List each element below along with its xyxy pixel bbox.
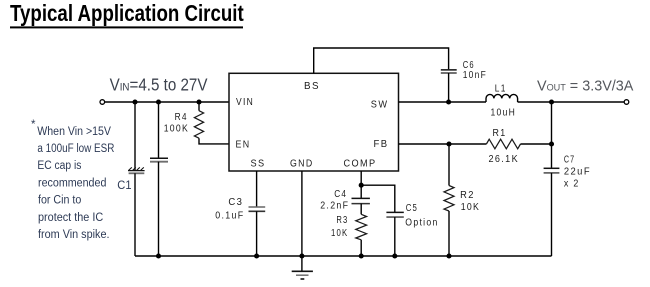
node junction C6/SW [446,99,451,104]
svg-text:C3: C3 [228,197,243,208]
svg-text:from Vin spike.: from Vin spike. [38,229,110,241]
capacitor C3 [249,207,266,211]
wire SS to C3 [256,171,258,207]
svg-text:SW: SW [371,100,389,111]
node junction COMP [359,183,364,188]
resistor R4 [194,111,203,139]
wire R1 to C7 node [521,143,552,145]
wire C4 to R3 [360,204,362,215]
svg-text:BS: BS [304,81,320,92]
wire ground rail [135,255,552,257]
svg-text:recommended: recommended [38,177,106,189]
svg-text:SS: SS [251,159,266,170]
resistor R3 [356,214,367,240]
capacitor C4 [352,198,370,203]
title underline [10,26,243,28]
svg-text:protect the IC: protect the IC [38,212,103,224]
svg-text:GND: GND [290,159,314,170]
wire R4 to EN [199,138,229,144]
capacitor C5 [386,212,403,217]
svg-text:x 2: x 2 [564,178,580,189]
net label VOUT=3.3V/3A [537,78,634,94]
node junction C1 top [132,99,137,104]
inductor L1 [486,94,518,102]
svg-text:C1: C1 [117,178,131,192]
svg-text:*: * [31,119,36,131]
capacitor C1 [128,167,145,173]
net label VIN=4.5 to 27V [110,76,208,95]
svg-text:2.2nF: 2.2nF [320,201,349,212]
wire C5 to rail [394,217,396,256]
wire Cin branch upper [158,102,160,158]
wire Cin branch lower [158,162,160,256]
node junction Cin/rail [156,253,161,258]
wire C1 branch upper [134,102,136,170]
wire C7 to rail [551,173,553,256]
wire R4 top stub [198,102,200,111]
svg-text:When Vin >15V: When Vin >15V [37,126,111,138]
input terminal [100,100,105,105]
node junction SS/rail [254,253,259,258]
capacitor Cin [150,158,168,162]
svg-text:R4: R4 [175,112,188,123]
svg-text:0.1uF: 0.1uF [215,210,244,221]
node junction Cin top [156,99,161,104]
wire C1 branch lower [134,173,136,256]
svg-text:R3: R3 [336,215,348,226]
wire R2 to rail [448,211,450,256]
node junction R3/rail [359,253,364,258]
wire L1 to output [518,101,625,103]
svg-text:FB: FB [374,139,389,150]
svg-text:10K: 10K [461,202,481,213]
wire COMP pin down [360,171,362,198]
svg-text:R1: R1 [493,128,507,139]
node junction FB/C7 [549,141,554,146]
node junction R4 top [196,99,201,104]
IC U1 (buck converter) [229,73,399,171]
svg-text:R2: R2 [460,190,475,201]
node junction R2/rail [446,253,451,258]
node junction VOUT [549,99,554,104]
svg-text:for Cin to: for Cin to [38,195,81,207]
svg-text:Typical Application Circuit: Typical Application Circuit [10,1,244,26]
svg-text:C7: C7 [564,155,575,166]
capacitor C7 [544,168,560,173]
node junction GND/rail [299,253,304,258]
wire COMP node to C5 [361,185,395,212]
wire GND pin to rail [301,171,303,256]
svg-text:L1: L1 [495,83,507,94]
svg-text:26.1K: 26.1K [489,154,520,165]
wire C3 to rail [256,211,258,256]
svg-text:VIN: VIN [236,97,254,108]
resistor R2 [444,186,454,212]
ground [292,256,313,279]
wire C6 to SW node [448,73,450,102]
wire VOUT node down to C7 [551,102,553,168]
node junction R2/FB [446,141,451,146]
resistor R1 [486,139,520,149]
svg-text:10nF: 10nF [463,70,487,81]
wire R3 to rail [360,240,362,256]
svg-text:EC cap is: EC cap is [37,160,81,172]
svg-text:Option: Option [405,217,438,228]
output terminal [624,100,629,105]
title Typical Application Circuit [10,1,244,26]
wire SW to L1 [399,101,487,103]
svg-text:C4: C4 [334,189,347,200]
wire FB to R1 [399,143,487,145]
wire BS to C6 [314,48,449,73]
svg-text:a 100uF low ESR: a 100uF low ESR [37,143,114,155]
capacitor C6 [441,70,457,73]
svg-text:C5: C5 [406,203,418,214]
svg-text:22uF: 22uF [564,166,591,177]
svg-text:100K: 100K [164,124,189,135]
svg-text:10K: 10K [331,228,348,239]
node junction C5/rail [392,253,397,258]
svg-text:EN: EN [236,139,251,150]
wire R2 top [448,144,450,186]
svg-text:10uH: 10uH [491,107,517,118]
wire input to VIN pin [105,101,229,103]
svg-text:COMP: COMP [344,159,377,170]
